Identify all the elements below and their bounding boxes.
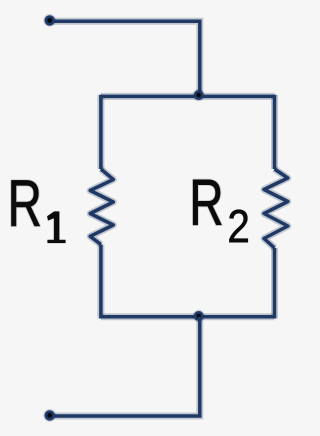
node bottom junction: [193, 310, 205, 322]
terminal dot bottom: [43, 409, 56, 422]
wire bottom bus: [101, 313, 275, 320]
label R1: [12, 180, 66, 242]
node top junction: [193, 89, 205, 101]
wire top lead: [50, 21, 200, 96]
wire right branch lower: [271, 248, 278, 319]
wire top bus: [101, 93, 275, 100]
resistor R1: [90, 169, 113, 245]
wire bottom lead: [50, 317, 200, 416]
terminal dot top: [43, 14, 56, 27]
wire left branch lower: [97, 245, 104, 319]
wire right branch upper: [271, 95, 278, 169]
resistor R2: [264, 169, 288, 248]
label R2: [193, 180, 248, 242]
wire left branch upper: [97, 95, 104, 169]
